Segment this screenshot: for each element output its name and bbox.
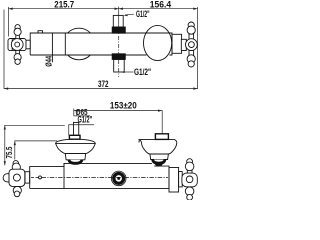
svg-text:G1/2": G1/2" — [134, 67, 151, 77]
svg-text:372: 372 — [98, 79, 108, 89]
svg-text:156.4: 156.4 — [150, 0, 171, 9]
svg-text:G1/2": G1/2" — [136, 9, 150, 20]
svg-text:153±20: 153±20 — [110, 100, 137, 111]
svg-text:75.5: 75.5 — [4, 147, 14, 159]
svg-text:G1/2": G1/2" — [78, 114, 93, 125]
svg-text:215.7: 215.7 — [54, 0, 74, 9]
svg-text:Ø44: Ø44 — [46, 56, 54, 67]
